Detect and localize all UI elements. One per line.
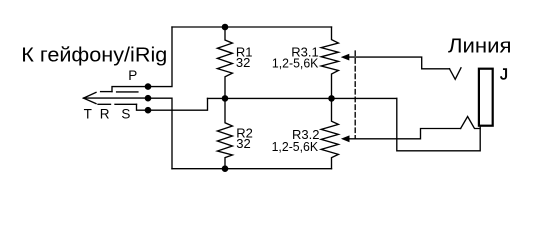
plug XP1 sleeve contact S wire to node 3: [137, 104, 149, 110]
svg-text:T: T: [84, 106, 92, 121]
wire: top rail: [172, 26, 332, 28]
plug XP1 barrel top segments: [101, 91, 138, 93]
svg-text:1,2-5,6K: 1,2-5,6K: [272, 139, 319, 154]
wire: node 2 to bottom rail: [148, 98, 172, 169]
svg-text:Линия: Линия: [448, 36, 512, 58]
jack J ring contact spring: [461, 117, 480, 129]
svg-text:К гейфону/iRig: К гейфону/iRig: [21, 45, 167, 67]
junction dot bottom rail at R2: [222, 165, 229, 172]
junction dot middle rail at R3.1/R3.2: [328, 95, 335, 102]
wire: node 1 up to top rail: [148, 27, 172, 87]
potentiometer R3.2 element: [321, 98, 338, 168]
svg-text:32: 32: [236, 55, 250, 70]
gang dashed line between R3.1 and R3.2 wipers: [354, 51, 356, 139]
svg-text:32: 32: [236, 136, 250, 151]
wire: middle rail: [208, 97, 397, 99]
junction dot top rail at R1: [222, 24, 229, 31]
plug XP1 barrel bottom segments: [98, 103, 137, 105]
wire: R3.1 wiper to jack tip contact: [349, 57, 450, 69]
plug XP1 tip arrowhead and shaft (T): [84, 92, 149, 103]
jack J tip contact spring: [450, 68, 462, 80]
junction dot node 1 (P terminal): [145, 83, 152, 90]
jack J body: [479, 69, 493, 126]
wire: node 3 to middle rail: [148, 98, 208, 110]
junction dot node 3 (sleeve terminal): [145, 107, 152, 114]
potentiometer R3.1 wiper arrow: [342, 54, 349, 60]
svg-text:1,2-5,6K: 1,2-5,6K: [272, 56, 319, 71]
potentiometer R3.2 wiper arrow: [342, 136, 349, 142]
svg-text:R: R: [100, 106, 110, 121]
potentiometer R3.1 element: [321, 27, 338, 98]
junction dot node 2 (tip terminal): [145, 95, 152, 102]
svg-text:S: S: [121, 106, 130, 121]
junction dot middle rail at R1/R2: [222, 95, 229, 102]
resistor R1: [217, 27, 232, 98]
wire: R3.2 wiper to jack ring contact: [349, 129, 461, 139]
wire: jack sleeve to middle rail: [397, 98, 480, 150]
wire: bottom rail: [172, 168, 332, 170]
plug XP1 contact P wire to node 1: [112, 87, 148, 92]
svg-text:J: J: [500, 67, 508, 84]
resistor R2: [217, 98, 232, 168]
svg-text:P: P: [128, 68, 137, 83]
